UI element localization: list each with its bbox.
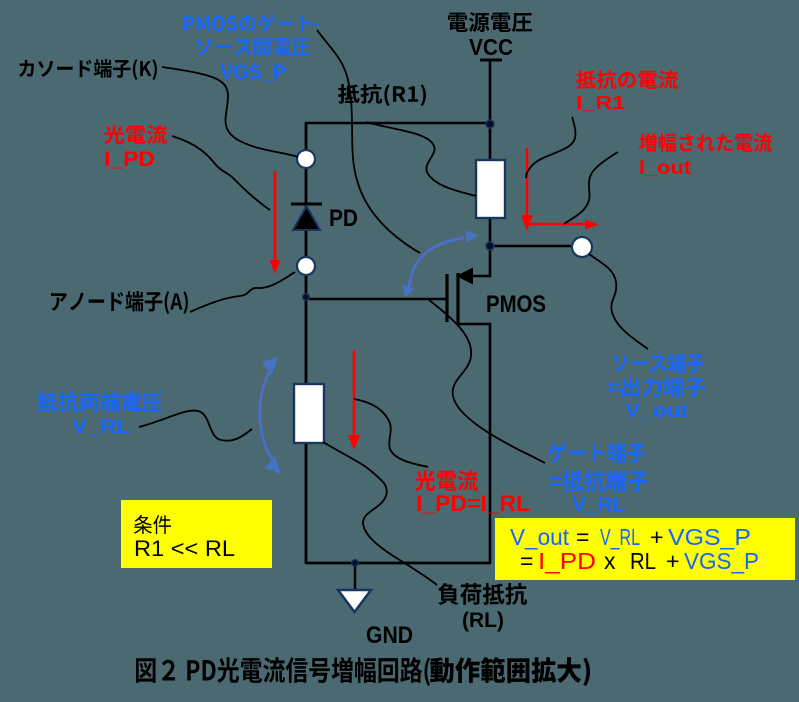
label ソース端子 [613,353,704,373]
node K cathode terminal [297,150,315,168]
arrow blue V_RL arc (voltage across RL) [260,357,281,474]
wire node to output terminal [490,245,575,248]
svg-text:VCC: VCC [469,34,513,60]
wire VCC vertical (VCC to node at top of R1 branch) [489,61,492,161]
wire R1 lower segment [489,218,492,247]
wire PMOS drain lead [458,324,490,564]
resistor RL [294,384,324,443]
svg-text:=I_PDxRL+VGS_P: =I_PDxRL+VGS_P [520,548,759,574]
svg-text:I_PD=I_RL: I_PD=I_RL [416,491,530,516]
wire leader 増幅された電流 I_out to output node [564,152,618,224]
wire PMOS gate lead [306,298,447,301]
photodiode PD triangle [293,206,320,230]
svg-text:GND: GND [366,622,413,649]
ground symbol [338,590,371,612]
node junction anode / gate [303,294,310,301]
label =出力端子 [608,377,705,397]
arrow red I_RL current [348,350,360,450]
wire left vertical (PD / RL branch) [305,123,308,564]
label アノード端子(A) [51,291,188,314]
wire leader gate wire to ゲート端子 V_RL label [429,300,545,463]
svg-text:R1 << RL: R1 << RL [134,536,235,561]
node output terminal V_out [572,237,592,257]
svg-text:V_out=V_RL+VGS_P: V_out=V_RL+VGS_P [510,524,751,550]
arrow blue VGS_P arc (gate-source voltage) [402,230,478,297]
arrow red I_PD current [270,171,281,274]
label 光電流 (I_PD=I_RL) [415,470,478,491]
label ソース間電圧 (VGS_P line2) [196,38,310,56]
wire bottom horizontal [306,562,490,565]
arrow red I_R1 current [521,148,533,231]
node junction ground [352,560,359,567]
svg-text:PMOS: PMOS [486,291,546,318]
wire GND stub [354,563,356,591]
wire top horizontal (node A branch to R1 branch) [305,122,490,125]
svg-text:V_RL: V_RL [72,416,130,438]
node junction top of R1 [486,120,494,128]
svg-text:(RL): (RL) [462,609,504,632]
resistor R1 [476,160,505,218]
node junction R1 bottom / PMOS source [486,242,494,250]
svg-text:I_out: I_out [639,157,692,179]
svg-text:PD: PD [329,205,358,232]
label 電源電圧 [448,12,532,32]
label 抵抗両端電圧 [37,392,162,412]
svg-text:I_PD: I_PD [104,148,155,171]
caption 動作範囲拡大) [430,657,590,686]
highlight box 条件 R1 << RL [121,500,272,568]
wire leader カソード端子(K) to K terminal [162,67,298,157]
label 抵抗の電流 [576,70,678,89]
label 条件 [134,515,171,534]
svg-text:V_out: V_out [625,400,689,422]
wire leader VGS_P label to arc [317,30,420,253]
label ゲート端子 [548,442,645,463]
wire leader アノード端子(A) to A terminal [190,272,295,312]
arrow red I_out current [527,220,599,230]
label 抵抗(R1) [338,84,426,106]
wire PMOS source lead [458,246,490,276]
photodiode PD cathode bar [291,203,322,206]
wire leader 抵抗(R1) to R1 [366,122,476,196]
label カソード端子(K) [19,59,157,80]
svg-text:V_RL: V_RL [572,494,625,516]
transistor Q1 PMOS channel bar [456,273,459,325]
wire leader 光電流 I_PD to arrow [172,136,270,210]
caption 図２ PD光電流信号増幅回路( [136,657,430,686]
node A anode terminal [297,257,315,275]
highlight box V_out formula [495,518,795,580]
label 負荷抵抗 [438,583,527,605]
label 光電流 (I_PD) [104,125,167,144]
power VCC terminal bar [480,59,502,62]
wire leader output node to ソース端子 V_out label [589,254,648,349]
svg-text:VGS_P: VGS_P [220,61,286,84]
wire leader RL to 負荷抵抗 label [323,442,437,585]
label PMOSのゲート－ (VGS_P line1) [184,14,320,32]
label 増幅された電流 [639,133,772,152]
svg-text:I_R1: I_R1 [576,93,625,113]
transistor Q1 PMOS source arrow [456,268,473,285]
label =抵抗端子 [550,470,648,492]
wire leader 抵抗の電流 I_R1 to arrow [526,117,576,178]
transistor Q1 PMOS gate bar [445,274,448,322]
wire leader I_RL arrow to 光電流 I_PD=I_RL label [354,399,428,467]
wire leader 抵抗両端電圧 V_RL to arc [139,411,252,441]
